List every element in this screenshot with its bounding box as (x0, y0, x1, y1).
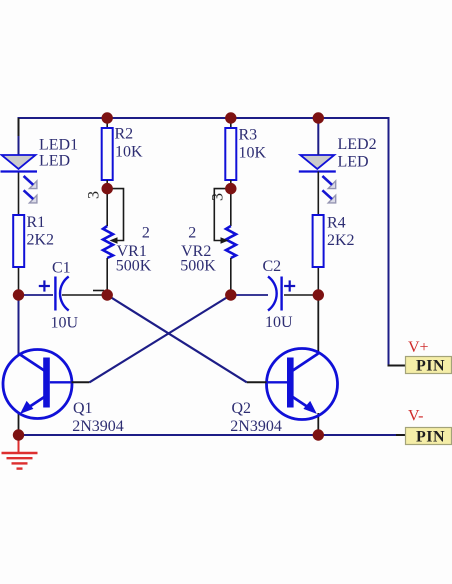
wire V+ pin stub (389, 365, 406, 366)
capacitor C1 (19, 277, 108, 311)
svg-text:C2: C2 (263, 258, 282, 275)
capacitor C2 (231, 277, 318, 311)
wire node to Q1 collector (18, 295, 20, 354)
wire Q1 emitter to ground node (18, 413, 20, 435)
svg-text:10U: 10U (51, 315, 79, 332)
svg-text:10K: 10K (115, 144, 143, 161)
svg-text:2: 2 (188, 224, 196, 241)
svg-text:2K2: 2K2 (27, 232, 55, 249)
resistor R2 (102, 118, 113, 189)
svg-text:10K: 10K (239, 145, 267, 162)
wire LED2 cathode to R4 (317, 172, 319, 216)
connector PIN V- (406, 428, 452, 446)
wire LED1 cathode to R1 (18, 172, 20, 216)
svg-text:2N3904: 2N3904 (72, 418, 124, 435)
resistor R1 (13, 215, 24, 267)
resistor R3 (225, 118, 236, 189)
node R1/C1 (13, 289, 24, 300)
wire bottom rail V- net (19, 434, 398, 436)
svg-text:3: 3 (85, 191, 102, 199)
node R2/VR1 (102, 183, 113, 194)
wire Q2 base to VR1 node (cross wire) (107, 295, 247, 382)
svg-text:500K: 500K (116, 258, 152, 275)
svg-text:V-: V- (408, 407, 423, 424)
transistor Q2 (267, 349, 338, 420)
potentiometer VR2 (214, 189, 236, 295)
wire Q1 base pin (50, 381, 72, 383)
wire Q1 base to VR2 node (cross wire) (90, 295, 231, 382)
ground (2, 437, 38, 469)
LED LED1 (1, 155, 38, 203)
node VR2/C2 (225, 289, 236, 300)
svg-text:Q1: Q1 (73, 400, 93, 417)
svg-text:V+: V+ (408, 339, 429, 356)
node Q2 emitter junction (313, 429, 324, 440)
svg-text:LED: LED (39, 153, 70, 170)
resistor R4 (313, 215, 324, 267)
node R3/VR2 (225, 183, 236, 194)
svg-text:Q2: Q2 (232, 400, 252, 417)
svg-text:R3: R3 (239, 127, 258, 144)
wire Q2 emitter to V- node (317, 413, 319, 435)
svg-text:LED: LED (338, 154, 369, 171)
transistor Q1 (3, 350, 72, 419)
svg-text:R1: R1 (27, 214, 46, 231)
svg-text:2K2: 2K2 (327, 232, 355, 249)
LED LED2 (299, 155, 336, 203)
svg-text:500K: 500K (180, 258, 216, 275)
svg-text:2: 2 (142, 224, 150, 241)
wire Q2 base pin (266, 381, 287, 383)
svg-text:3: 3 (209, 193, 226, 201)
svg-text:2N3904: 2N3904 (230, 418, 282, 435)
node R3 top (225, 112, 236, 123)
svg-text:C1: C1 (52, 259, 71, 276)
wire R1 bottom to node (18, 267, 20, 295)
svg-text:R4: R4 (327, 215, 346, 232)
potentiometer VR1 (93, 189, 124, 295)
wire LED2 top stub (317, 118, 319, 155)
node C1/VR1 (102, 289, 113, 300)
wire top-left corner black segment (18, 118, 20, 137)
node LED2 top (313, 112, 324, 123)
node ground junction (13, 429, 24, 440)
svg-text:LED1: LED1 (39, 137, 78, 154)
node R2 top (102, 112, 113, 123)
svg-text:PIN: PIN (416, 357, 445, 374)
connector PIN V+ (406, 357, 452, 375)
wire V- pin stub (396, 434, 406, 436)
wire R4 bottom to node (317, 267, 319, 295)
wire top rail V+ net (19, 118, 389, 366)
wire node to Q2 collector (317, 295, 319, 353)
node C2/R4 (313, 289, 324, 300)
svg-text:10U: 10U (265, 314, 293, 331)
svg-text:PIN: PIN (416, 428, 445, 445)
svg-text:R2: R2 (115, 126, 134, 143)
wire left rail to LED1 anode (18, 136, 20, 155)
svg-text:LED2: LED2 (338, 136, 377, 153)
